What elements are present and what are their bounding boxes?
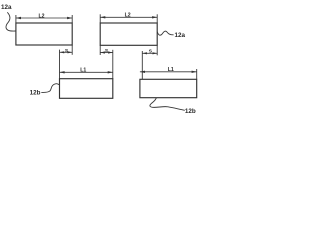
rectangle 12b (bottom-right coil body) [140,79,197,97]
dimension S (top-left group): left arrowhead [60,51,65,53]
dimension L1 (bottom-right): left arrowhead [140,71,145,73]
dimension L1 (bottom-right): right extension line [196,69,198,79]
svg-text:L1: L1 [168,67,174,73]
dimension L2 (top-right): left arrowhead [100,16,105,18]
dimension S (top-right group, left): right arrowhead [108,51,113,53]
dimension S (top-right group, right): left extension line (down to 12b rect top) [141,51,143,79]
svg-text:12a: 12a [175,32,186,39]
dimension S (top-left group): left extension line (down to 12b rect top) [59,50,61,79]
dimension S (top-right group, left): left extension line (rect edge extended down) [99,45,101,55]
dimension L2 (top-right): right arrowhead [152,16,157,18]
dimension L1 (bottom-right): right arrowhead [192,71,197,73]
dimension S (top-left group): right extension line (rect edge extended down) [71,45,73,55]
dimension S (top-right group, right): right arrowhead [153,52,158,54]
dimension L2 (top-left): left extension line [15,15,17,23]
leader line for 12a (top-left) [6,12,16,31]
dimension L2 (top-left): right arrowhead [67,17,72,19]
dimension S (top-right group, left): dimension line [100,52,113,54]
dimension L2 (top-left): right extension line [71,15,73,23]
rectangle 12a (top-left coil body) [16,23,72,45]
svg-text:L2: L2 [38,13,44,19]
svg-text:12b: 12b [185,108,196,115]
rectangle 12a (top-right coil body) [100,23,157,45]
svg-text:12a: 12a [1,4,12,11]
rectangle 12b (bottom-left coil body) [60,79,113,99]
dimension S (top-left group): dimension line [60,51,73,53]
dimension S (top-right group, left): right extension line (down to 12b rect top) [112,50,114,79]
dimension L1 (bottom-left): right arrowhead [108,71,113,73]
dimension S (top-right group, right): right extension line (rect edge extended down) [156,45,158,55]
svg-text:12b: 12b [30,90,41,97]
dimension L1 (bottom-left): dimension line [60,71,113,73]
dimension S (top-right group, left): left arrowhead [100,51,105,53]
dimension L2 (top-left): dimension line [16,17,72,19]
dimension L1 (bottom-left): left arrowhead [60,71,65,73]
dimension S (top-right group, right): dimension line [142,52,157,54]
leader line for 12a (top-right) [157,31,173,35]
leader line for 12b (bottom-right) [150,98,185,111]
leader line for 12b (bottom-left) [41,84,59,93]
dimension S (top-left group): right arrowhead [68,51,73,53]
dimension S (top-right group, right): left arrowhead [142,52,147,54]
dimension L2 (top-right): dimension line [100,16,157,18]
svg-text:L2: L2 [125,13,131,19]
svg-text:L1: L1 [80,68,86,74]
dimension L2 (top-right): right extension line [156,14,158,23]
dimension L2 (top-left): left arrowhead [16,17,21,19]
dimension L1 (bottom-right): dimension line [140,71,197,73]
dimension L2 (top-right): left extension line [99,14,101,23]
